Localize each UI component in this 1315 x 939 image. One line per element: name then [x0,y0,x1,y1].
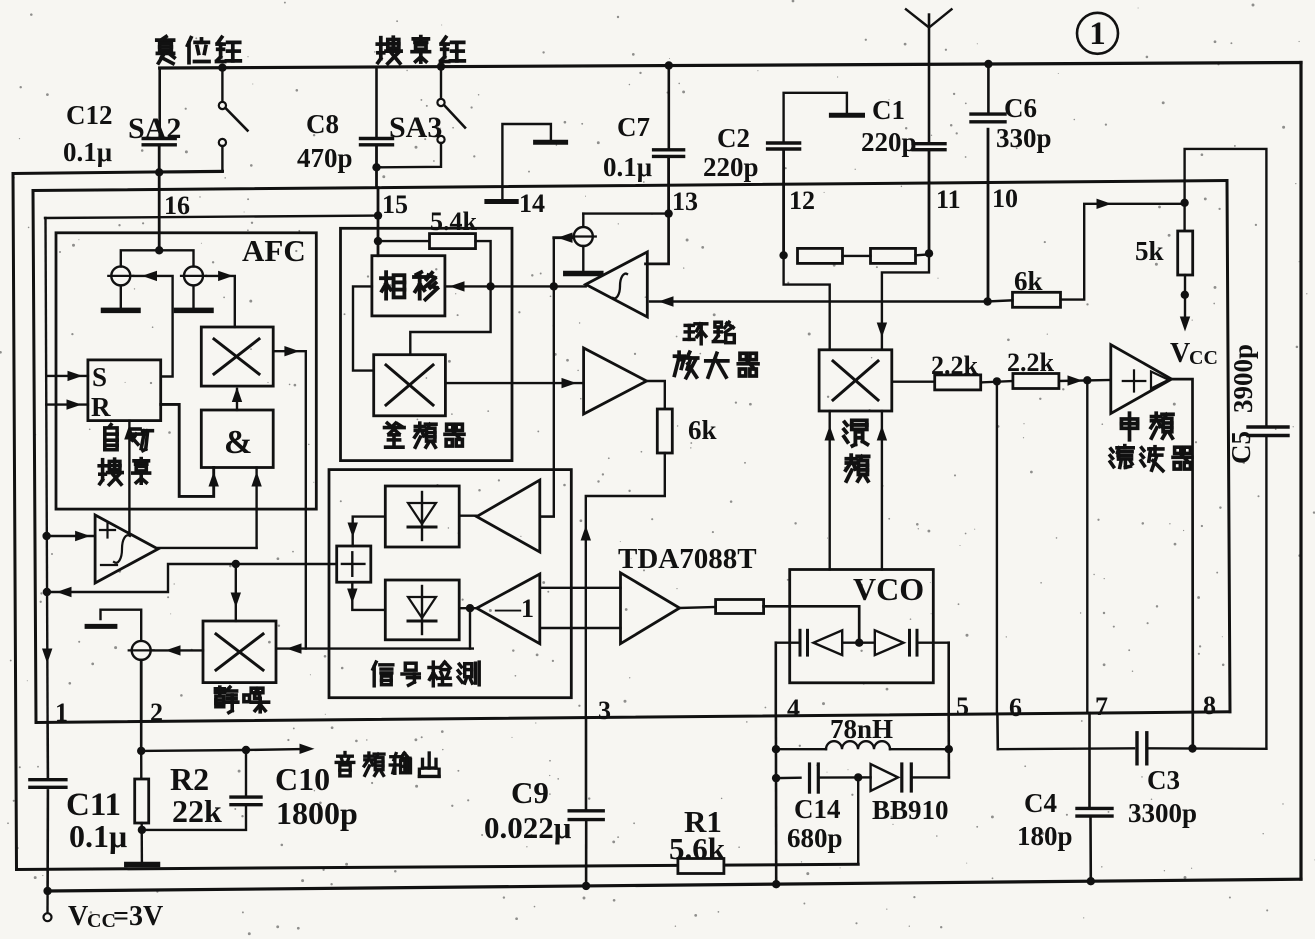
svg-text:6k: 6k [688,415,717,445]
diode detector box 2 [385,580,459,640]
svg-text:5.6k: 5.6k [669,831,726,866]
svg-text:5: 5 [956,692,969,721]
svg-text:C9: C9 [511,775,549,810]
wire I2 to multiplier [207,276,235,327]
wire BB910 node to R1 [857,777,859,864]
svg-text:&: & [224,424,252,461]
wire to current sources [121,250,194,266]
switch SA2 [218,63,226,71]
capacitor C8 470p [375,67,378,137]
capacitor C9 0.022u [569,809,603,812]
svg-text:470p: 470p [297,143,353,173]
pin 16 internal lead [158,189,161,250]
wire right frame edge (VCC) [1299,63,1302,880]
arrow on pin1 bus [43,649,52,662]
capacitor C5 3900p [1248,425,1288,428]
diode detector box 1 [385,486,459,547]
junction comparator + input [42,532,50,540]
current source I3 (mute) [132,641,151,660]
svg-text:8: 8 [1203,691,1216,720]
svg-text:1800p: 1800p [276,795,358,831]
svg-text:SA2: SA2 [128,112,181,145]
svg-text:1: 1 [1089,16,1106,52]
multiplier box in AFC [201,327,273,386]
mixer box [819,350,892,411]
capacitor C6 330p [984,60,992,68]
junction mute input [232,560,240,568]
inverter amp -1 (points left) [477,574,540,644]
pin 2 lead below IC [140,722,143,754]
current source I1 [111,266,130,285]
wire 5k node to C5 branch [1185,149,1267,427]
wire C3 to pin8 and C5 branch [1147,747,1267,750]
comparator with + and integrator symbol [95,515,158,583]
label signal detector [373,662,376,669]
wire comparator output to AND gate [158,547,257,549]
capacitor C11 0.1u [46,722,49,778]
label discriminator [387,423,391,426]
loop amplifier triangle with integrator [586,252,648,317]
svg-text:0.1μ: 0.1μ [63,137,112,167]
junction pin6 [993,377,1001,385]
svg-text:1: 1 [55,698,68,727]
mute switch contact symbol [101,610,142,640]
label mixer [845,422,847,425]
svg-text:C7: C7 [617,112,650,142]
svg-text:C2: C2 [717,123,750,153]
wire R input [46,403,88,405]
svg-text:S: S [92,362,107,392]
wire AND gate to multiplier [236,389,238,410]
svg-text:6: 6 [1009,693,1022,722]
pin 4 lead below IC [775,716,778,884]
ground for I1 [120,286,122,309]
resistor R2 22k [140,751,143,780]
resistor 2.2k b [1013,374,1059,389]
label loop amplifier [685,324,693,327]
audio amplifier triangle [621,573,680,644]
resistor 5k [1183,203,1185,232]
ground for I2 [192,286,194,309]
capacitor C4 180p [1088,713,1091,807]
resistor 6k at amplifier output [647,381,665,409]
wire box2 to inverter junction [459,607,477,609]
antenna [928,15,931,65]
ground for I4 [582,246,584,271]
svg-text:=3V: =3V [113,901,163,932]
wire adder to diode box2 [352,582,385,610]
AND gate box [201,410,273,468]
capacitor C7 0.1u [665,61,673,69]
pin 2 lead [140,660,143,722]
AFC block box [56,233,316,509]
wire bottom VCC bus [48,879,1301,891]
svg-text:C12: C12 [66,100,113,130]
wire inverter to audio amp upper [540,587,621,589]
svg-text:R2: R2 [170,761,209,797]
wire 6k to 5k top node [1061,204,1185,300]
varactor left [799,630,802,655]
mute multiplier box [203,621,276,683]
wire phase shifter left loop [353,286,374,370]
varactor right [859,642,875,644]
switch SA3 [437,62,445,70]
wire limiter vertical [540,238,554,517]
svg-text:2: 2 [150,698,163,727]
pin 4 column [774,643,777,716]
IC body left edge [33,191,36,723]
svg-text:C4: C4 [1024,788,1057,818]
svg-text:5k: 5k [1135,236,1164,266]
varactor diode BB910 [858,776,870,778]
adder box [337,546,371,582]
svg-text:—1: —1 [494,594,534,623]
svg-text:C6: C6 [1004,93,1037,123]
pin 5 column [947,643,950,715]
pin 12 lead [782,184,785,255]
wire resistor divider left to mixer [784,255,830,349]
wire feedback bus to adder [47,564,337,592]
capacitor C10 1800p [245,750,247,796]
wire box1 to amp1 [459,515,477,517]
pin 3 lead to C9 [585,718,588,810]
junction feedback wire [43,588,51,596]
circled figure number 1 [1077,13,1118,54]
pin 13 lead and wire to loop amp [667,185,670,213]
wire inverter to audio amp lower [540,627,621,629]
label reset button [157,38,174,42]
svg-text:0.022μ: 0.022μ [484,810,572,845]
svg-text:VCO: VCO [853,571,924,607]
wire 6k to pin 3 [586,453,665,718]
wire mixer lower right to VCO [881,411,883,570]
resistor 2.2k a [935,375,981,390]
phase shifter box [372,256,445,316]
wire mixer output to 2.2k [892,381,935,383]
wire diode box1 to adder [353,517,386,546]
internal resistor b [871,248,916,263]
VCC supply terminal [46,891,48,914]
VCC arrow terminal [1184,275,1186,325]
svg-text:SA3: SA3 [389,111,442,144]
wire multiplier output down to detector line [273,351,306,648]
svg-text:14: 14 [519,189,545,218]
pin 5 lead below IC [947,714,950,777]
wire I1 to SR flip-flop [134,276,173,377]
capacitor C12 0.1u [158,68,161,137]
svg-text:22k: 22k [172,793,222,829]
svg-text:11: 11 [936,185,961,214]
pin 6 column [996,381,998,714]
capacitor C2 220p with ground stub [784,93,847,142]
wire resistor to VCO varactor node [764,606,860,642]
wire ground/frame top-left segment [13,171,223,173]
svg-text:0.1μ: 0.1μ [69,818,127,854]
signal detector block box [329,470,571,698]
wire 5.4k to multiplier [410,241,490,355]
wire loop amp lower input from pin10 node [650,300,988,302]
capacitor C14 680p [776,777,800,780]
discriminator multiplier box [374,355,446,416]
wire IF amp output to pin 8 [1172,379,1193,748]
svg-text:C8: C8 [306,109,339,139]
junction pin7 [1083,376,1091,384]
svg-text:3300p: 3300p [1128,798,1197,828]
wire VCC top bus [160,63,1301,69]
current source I2 [184,266,203,285]
label audio output [343,753,346,756]
svg-text:CC: CC [87,910,116,932]
svg-text:220p: 220p [703,152,759,182]
svg-text:10: 10 [992,184,1018,213]
wire mixer lower left to VCO [829,411,831,570]
wire AND gate bottom-right to comparator output [255,468,257,548]
svg-text:3: 3 [598,696,611,725]
label mute [215,687,224,691]
svg-text:BB910: BB910 [872,795,949,825]
wire audio amp output [680,607,716,608]
wire phase shifter input [445,285,586,287]
wire 2.2k to IF amp [1059,380,1111,381]
svg-text:180p: 180p [1017,821,1073,851]
wire discriminator output to amplifier [445,382,583,384]
svg-text:330p: 330p [996,123,1052,153]
wire pin6 to C3 [998,747,1134,750]
pin 15 lead [377,188,380,216]
svg-text:7: 7 [1095,692,1108,721]
svg-text:C3: C3 [1147,765,1180,795]
svg-text:680p: 680p [787,823,843,853]
R2 ground bar [127,862,158,868]
resistor 5.4k [378,240,430,242]
wire to mute multiplier [235,564,237,621]
svg-text:R: R [91,392,111,422]
current source I4 [582,214,584,227]
svg-text:220p: 220p [861,127,917,157]
wire S input [46,375,88,377]
resistor 6k (pin10 node) [1013,292,1061,307]
svg-text:16: 16 [164,191,190,220]
buffer amp 1 (points left) [477,480,540,552]
IC body right edge [1227,181,1230,712]
wire audio output [141,749,246,752]
inductor 78nH [776,748,826,750]
svg-text:0.1μ: 0.1μ [603,152,652,182]
SR flip-flop box [88,360,161,421]
svg-text:AFC: AFC [242,233,306,268]
svg-text:12: 12 [789,186,815,215]
svg-text:CC: CC [1189,347,1218,369]
resistor R1 5.6k [678,859,724,874]
svg-text:13: 13 [672,187,698,216]
wire mute to current source [152,649,204,651]
label search button [379,38,383,59]
wire junction down to mute line [469,608,471,648]
wire SR bottom to comparator [128,421,130,534]
wire I4 output to limiter line [554,236,574,239]
discriminator block box [341,228,513,460]
capacitor C3 3300p [1135,733,1138,764]
second amplifier triangle [584,348,647,414]
svg-text:C10: C10 [275,761,330,797]
svg-text:C5: C5 [1226,431,1256,464]
svg-text:4: 4 [787,694,800,723]
pin 7 column [1086,380,1088,713]
wire left frame edge (ground) [13,174,17,870]
svg-text:5.4k: 5.4k [430,207,478,236]
label auto search [109,425,111,428]
wire internal bus pin15 to pin1 [45,216,378,218]
svg-text:C14: C14 [794,794,841,824]
svg-text:2.2k: 2.2k [931,351,979,380]
svg-text:15: 15 [382,190,408,219]
wire amp1 input from limiter [540,515,554,517]
IF filter amplifier triangle [1111,345,1172,414]
svg-text:C1: C1 [872,95,905,125]
label IF filter [1121,419,1137,428]
varactor pair wire [776,642,800,644]
VCO block box [790,570,934,683]
pin 10 lead [987,183,990,302]
svg-text:V: V [1170,338,1190,369]
svg-text:V: V [68,901,88,932]
wire comparator + input from bus [47,535,96,537]
capacitor C1 220p [928,64,931,142]
wire mute output from signal detector [277,647,473,649]
svg-text:TDA7088T: TDA7088T [618,543,757,575]
resistor (amp to VCO) [716,600,764,614]
IC body bottom edge [36,712,1230,723]
IC TDA7088T body outline top edge [33,181,1227,191]
wire resistor divider right to mixer [882,253,929,349]
wire AND gate bottom-left to SR flip-flop [161,404,214,496]
wire bottom ground line A [17,864,859,869]
pin 14 ground stub [502,124,551,201]
svg-text:3900p: 3900p [1228,344,1258,413]
svg-text:2.2k: 2.2k [1007,348,1055,377]
junction on phase-shift input [486,282,494,290]
svg-text:78nH: 78nH [830,714,893,744]
pin 11 lead [928,183,931,253]
svg-text:6k: 6k [1014,266,1043,296]
internal resistor a [798,248,843,263]
